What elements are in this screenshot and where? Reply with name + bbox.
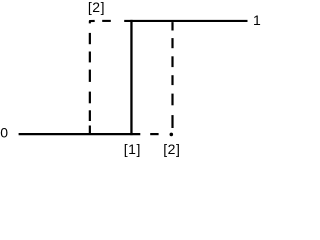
wire: late transition [2] vertical dash f bbox=[171, 115, 173, 128]
wire: late transition [2] vertical dash e bbox=[171, 94, 173, 106]
svg-text:[1]: [1] bbox=[124, 141, 141, 157]
wire: early transition [2] vertical dash c bbox=[89, 70, 91, 82]
wire: logic-0 level (bottom solid horizontal) bbox=[19, 133, 141, 135]
wire: late transition [2] vertical dash a bbox=[171, 22, 173, 30]
wire: early transition [2] vertical dash a bbox=[89, 33, 91, 44]
wire: late transition [2] vertical dash b bbox=[171, 38, 173, 48]
wire: early transition [2] top horizontal dash bbox=[102, 20, 111, 22]
wire: early transition [2] vertical dash d bbox=[89, 92, 91, 104]
svg-text:[2]: [2] bbox=[88, 0, 105, 15]
wire: late transition [2] vertical dash c bbox=[171, 56, 173, 67]
wire: late transition [2] bottom horizontal dash bbox=[150, 133, 158, 135]
wire: late transition [2] corner dot bbox=[170, 133, 174, 137]
svg-text:[2]: [2] bbox=[163, 141, 180, 157]
wire: early transition [2] vertical dash e bbox=[89, 110, 91, 121]
wire: logic-1 level (top solid horizontal) bbox=[124, 20, 247, 22]
wire: transition [1] solid vertical bbox=[130, 20, 132, 135]
wire: early transition [2] vertical dash b bbox=[89, 52, 91, 63]
wire: late transition [2] vertical dash d bbox=[171, 75, 173, 85]
svg-text:0: 0 bbox=[0, 125, 8, 141]
svg-text:1: 1 bbox=[253, 12, 261, 28]
wire: early transition [2] vertical dash f bbox=[89, 126, 91, 135]
wire: early transition [2] dashed corner piece bbox=[90, 21, 95, 24]
